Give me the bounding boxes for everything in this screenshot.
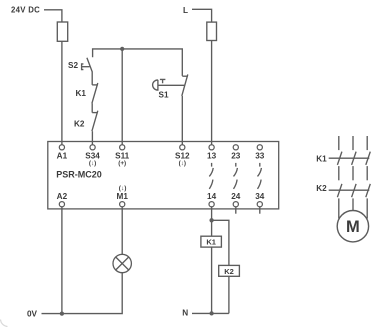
- svg-text:(↓): (↓): [179, 160, 186, 167]
- svg-text:K2: K2: [316, 184, 327, 193]
- svg-text:(+): (+): [118, 160, 126, 167]
- svg-text:PSR-MC20: PSR-MC20: [56, 170, 102, 180]
- svg-text:33: 33: [255, 152, 265, 161]
- svg-text:14: 14: [207, 192, 217, 201]
- svg-text:M1: M1: [117, 192, 129, 201]
- svg-text:34: 34: [255, 192, 265, 201]
- svg-text:K1: K1: [76, 89, 87, 98]
- svg-text:S1: S1: [159, 91, 169, 100]
- svg-text:M: M: [346, 218, 360, 236]
- svg-text:A2: A2: [57, 192, 68, 201]
- svg-text:0V: 0V: [27, 309, 38, 318]
- svg-text:K1: K1: [316, 154, 327, 163]
- svg-text:K2: K2: [74, 120, 85, 129]
- svg-text:23: 23: [231, 152, 241, 161]
- svg-text:L: L: [183, 6, 188, 15]
- svg-text:N: N: [182, 309, 188, 318]
- svg-text:24V DC: 24V DC: [11, 5, 40, 14]
- svg-text:24: 24: [231, 192, 241, 201]
- svg-text:(↓): (↓): [119, 185, 127, 192]
- svg-text:S2: S2: [68, 61, 78, 70]
- svg-text:K2: K2: [224, 267, 234, 276]
- svg-text:K1: K1: [206, 238, 216, 247]
- svg-text:(↓): (↓): [89, 160, 96, 167]
- svg-text:A1: A1: [57, 152, 68, 161]
- svg-text:13: 13: [207, 152, 217, 161]
